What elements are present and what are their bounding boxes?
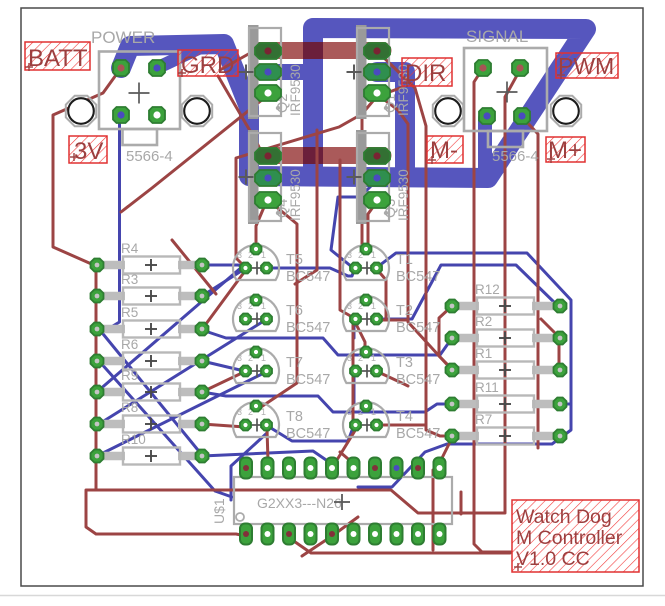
svg-text:U$1: U$1 — [211, 498, 227, 524]
svg-text:T2: T2 — [396, 303, 413, 319]
svg-text:BC547: BC547 — [396, 269, 440, 285]
svg-text:BC547: BC547 — [286, 320, 330, 336]
svg-text:3: 3 — [237, 407, 242, 417]
svg-text:R7: R7 — [475, 412, 492, 427]
svg-text:T3: T3 — [396, 355, 413, 371]
svg-text:R9: R9 — [121, 368, 138, 383]
svg-text:3V: 3V — [74, 138, 103, 165]
svg-text:T7: T7 — [286, 355, 303, 371]
svg-text:5566-4: 5566-4 — [126, 148, 173, 165]
svg-text:IRF9530: IRF9530 — [288, 169, 303, 221]
svg-text:BC547: BC547 — [396, 372, 440, 388]
svg-text:R3: R3 — [121, 272, 138, 287]
svg-text:R4: R4 — [121, 241, 139, 256]
svg-text:Watch Dog: Watch Dog — [516, 506, 612, 528]
svg-text:R6: R6 — [121, 337, 138, 352]
svg-text:POWER: POWER — [91, 28, 155, 47]
svg-text:T8: T8 — [286, 409, 303, 425]
svg-text:3: 3 — [347, 301, 352, 311]
svg-text:T5: T5 — [286, 252, 303, 268]
svg-text:3: 3 — [347, 353, 352, 363]
svg-text:M Controller: M Controller — [516, 527, 623, 549]
svg-text:R5: R5 — [121, 305, 138, 320]
svg-text:3: 3 — [347, 407, 352, 417]
svg-text:T1: T1 — [396, 252, 413, 268]
svg-text:3: 3 — [237, 353, 242, 363]
svg-text:R2: R2 — [475, 314, 492, 329]
svg-text:GRD: GRD — [181, 52, 234, 79]
svg-text:3: 3 — [237, 250, 242, 260]
svg-text:BC547: BC547 — [396, 320, 440, 336]
svg-text:BC547: BC547 — [396, 426, 440, 442]
svg-text:IRF9530: IRF9530 — [288, 64, 303, 116]
svg-text:M+: M+ — [548, 137, 582, 164]
svg-text:V1.0 CC: V1.0 CC — [516, 548, 590, 570]
svg-text:BC547: BC547 — [286, 269, 330, 285]
svg-text:T4: T4 — [396, 409, 413, 425]
svg-text:R11: R11 — [475, 380, 499, 395]
svg-text:T6: T6 — [286, 303, 303, 319]
svg-text:SIGNAL: SIGNAL — [466, 27, 528, 46]
svg-text:BC547: BC547 — [286, 372, 330, 388]
svg-text:DIR: DIR — [405, 60, 446, 87]
svg-text:BATT: BATT — [28, 45, 88, 72]
svg-text:R1: R1 — [475, 346, 492, 361]
svg-text:R12: R12 — [475, 282, 500, 297]
svg-text:PWM: PWM — [558, 53, 614, 79]
svg-text:BC547: BC547 — [286, 426, 330, 442]
svg-text:3: 3 — [347, 250, 352, 260]
svg-text:IRF9530: IRF9530 — [396, 169, 411, 221]
svg-text:R10: R10 — [121, 432, 146, 447]
svg-text:5566-4: 5566-4 — [492, 148, 539, 165]
svg-text:G2XX3---N26: G2XX3---N26 — [257, 495, 342, 511]
svg-text:3: 3 — [237, 301, 242, 311]
svg-text:R8: R8 — [121, 400, 138, 415]
